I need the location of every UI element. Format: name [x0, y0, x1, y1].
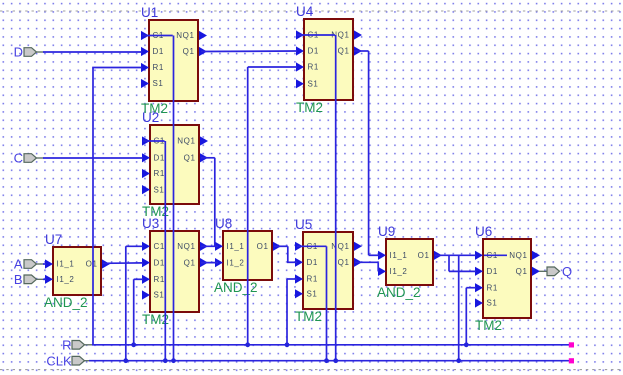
- flip-flop U1 (TM2) body: [141, 5, 207, 116]
- wire net R: horizontal into U3.R1: [134, 278, 143, 280]
- junction CLK rail x=173.5: [171, 358, 176, 363]
- svg-text:Q1: Q1: [516, 267, 528, 276]
- wire net C: port C to U2.D1: [43, 157, 143, 159]
- wire net B: port B to U7.I1_2: [43, 278, 46, 280]
- wire net R: vertical x=133.7 down to R rail: [133, 279, 135, 345]
- svg-text:R1: R1: [487, 283, 498, 292]
- pin S1 of U2: [142, 185, 150, 194]
- svg-text:D1: D1: [307, 258, 318, 267]
- wire net R: vertical x=287 down to R rail: [286, 279, 288, 345]
- pin Q1 of U5: [354, 258, 362, 267]
- pin S1 of U6: [475, 298, 483, 307]
- svg-text:B: B: [14, 272, 23, 287]
- svg-text:C1: C1: [154, 242, 165, 251]
- flip-flop U6 (TM2) body: [475, 224, 540, 333]
- svg-text:TM2: TM2: [295, 309, 322, 324]
- wire net U4.Q1 vertical down: [368, 51, 370, 255]
- svg-text:D1: D1: [154, 258, 165, 267]
- wire net CLK rail horizontal: [89, 360, 571, 362]
- pin R1 of U3: [142, 275, 150, 284]
- wire net U4.Q1 into U9.I1_1: [369, 254, 380, 256]
- svg-text:R1: R1: [307, 275, 318, 284]
- pin O1 of U7: [102, 259, 110, 268]
- junction CLK rail x=125.8: [123, 358, 128, 363]
- pin NQ1 of U1: [199, 31, 207, 40]
- svg-text:NQ1: NQ1: [176, 31, 194, 40]
- flip-flop U3 (TM2) body: [142, 216, 208, 327]
- pin I1_1 of U9: [378, 251, 386, 260]
- input port B: [14, 272, 44, 287]
- svg-text:TM2: TM2: [296, 100, 323, 115]
- pin S1 of U3: [142, 290, 150, 299]
- wire net U9.O1 into U6.D1: [449, 270, 476, 272]
- junction R rail x=466.3: [464, 342, 469, 347]
- pin Q1 of U2: [200, 153, 208, 162]
- pin NQ1 of U5: [354, 242, 362, 251]
- junction R rail x=133.7: [131, 342, 136, 347]
- wire net R: horizontal into U5.R1: [287, 278, 297, 280]
- pin Q1 of U6: [532, 267, 540, 276]
- pin C1 of U1: [141, 31, 149, 40]
- svg-text:C: C: [14, 151, 23, 166]
- pin R1 of U6: [475, 283, 483, 292]
- svg-text:D1: D1: [154, 154, 165, 163]
- flip-flop U5 (TM2) body: [295, 217, 362, 324]
- pin C1 of U5: [295, 242, 303, 251]
- input port A: [14, 257, 44, 272]
- dangling end marker on CLK rail: [569, 358, 574, 363]
- svg-text:D1: D1: [308, 47, 319, 56]
- svg-text:U6: U6: [475, 224, 492, 239]
- pin Q1 of U3: [200, 258, 208, 267]
- AND gate U7 (AND_2) body: [44, 232, 110, 310]
- wire net CLK: horizontal into U3.C1: [126, 245, 143, 247]
- pin C1 of U4: [296, 30, 304, 39]
- wire net CLK: stub from U4.C1 across label: [297, 34, 335, 36]
- wire net R: vertical x=93 down to R rail: [92, 68, 94, 345]
- pin Q1 of U4: [354, 46, 362, 55]
- svg-text:I1_1: I1_1: [227, 242, 245, 251]
- svg-text:Q1: Q1: [183, 47, 195, 56]
- svg-text:I1_1: I1_1: [57, 260, 75, 269]
- wire net U8.O1 into U5.D1: [287, 261, 297, 263]
- svg-text:AND_2: AND_2: [377, 285, 421, 300]
- flip-flop U2 (TM2) body: [142, 110, 208, 219]
- input port CLK: [46, 353, 92, 368]
- svg-text:Q1: Q1: [338, 258, 350, 267]
- pin D1 of U6: [475, 267, 483, 276]
- svg-text:S1: S1: [308, 80, 319, 89]
- pin C1 of U6: [475, 251, 483, 260]
- svg-text:S1: S1: [307, 290, 318, 299]
- junction CLK rail x=165.3: [163, 358, 168, 363]
- svg-text:R1: R1: [308, 63, 319, 72]
- svg-text:S1: S1: [154, 291, 165, 300]
- pin D1 of U3: [142, 258, 150, 267]
- pin R1 of U1: [141, 63, 149, 72]
- AND gate U9 (AND_2) body: [377, 224, 442, 300]
- svg-text:U9: U9: [378, 224, 395, 239]
- pin Q1 of U1: [199, 47, 207, 56]
- svg-text:U4: U4: [296, 4, 314, 19]
- pin D1 of U4: [296, 46, 304, 55]
- wire net U4.Q1 horizontal: [354, 50, 369, 52]
- svg-text:R1: R1: [153, 63, 164, 72]
- wire net R: horizontal into U4.R1: [248, 66, 297, 68]
- wire net R: vertical x=466.3 down to R rail: [465, 288, 467, 345]
- pin NQ1 of U4: [354, 30, 362, 39]
- svg-text:R: R: [62, 338, 71, 353]
- pin O1 of U9: [434, 251, 442, 260]
- pin NQ1 of U2: [200, 136, 208, 145]
- svg-text:U3: U3: [142, 216, 159, 231]
- svg-text:O1: O1: [257, 242, 269, 251]
- svg-text:Q1: Q1: [338, 47, 350, 56]
- pin R1 of U4: [296, 62, 304, 71]
- junction R rail x=287: [285, 342, 290, 347]
- svg-text:CLK: CLK: [46, 353, 72, 368]
- svg-text:D1: D1: [153, 47, 164, 56]
- pin R1 of U5: [295, 274, 303, 283]
- junction CLK rail x=458.7: [456, 358, 461, 363]
- wire net R rail horizontal: [92, 344, 571, 346]
- flip-flop U4 (TM2) body: [296, 4, 362, 115]
- svg-text:NQ1: NQ1: [177, 137, 195, 146]
- pin S1 of U5: [295, 289, 303, 298]
- wire net U8.O1 horizontal: [274, 245, 288, 247]
- svg-text:U1: U1: [141, 5, 158, 20]
- svg-text:O1: O1: [86, 260, 98, 269]
- wire net D: port D to U1.D1: [43, 51, 142, 53]
- output port Q: [539, 264, 572, 279]
- sheet border dashed line bottom: [0, 369, 623, 371]
- svg-text:U5: U5: [295, 217, 312, 232]
- dangling end marker on R rail: [569, 342, 574, 347]
- pin D1 of U1: [141, 47, 149, 56]
- pin R1 of U2: [142, 169, 150, 178]
- wire net U5.Q1 horizontal: [355, 261, 378, 263]
- wire net CLK: vertical x=125.8 to CLK rail: [125, 246, 127, 360]
- wire net R: vertical x=247.7 down to R rail: [247, 67, 249, 345]
- input port R: [62, 338, 92, 353]
- input port D: [14, 45, 44, 60]
- pin I1_1 of U7: [45, 259, 53, 268]
- svg-text:TM2: TM2: [475, 318, 502, 333]
- pin D1 of U5: [295, 258, 303, 267]
- wire net U3.NQ1 to U8.I1_1: [201, 245, 218, 247]
- svg-text:I1_1: I1_1: [390, 251, 408, 260]
- wire net CLK: vertical x=165.3 from U2.C1 to CLK rail: [164, 141, 166, 361]
- svg-text:Q1: Q1: [184, 154, 196, 163]
- wire net U2.Q1 vertical down to U8.I1_1: [214, 158, 216, 247]
- svg-text:S1: S1: [153, 79, 164, 88]
- pin S1 of U1: [141, 79, 149, 88]
- wire net CLK: vertical x=173.5 from U1.C1 to CLK rail: [173, 36, 175, 361]
- svg-text:U8: U8: [215, 216, 232, 231]
- AND gate U8 (AND_2) body: [214, 216, 281, 295]
- pin D1 of U2: [142, 153, 150, 162]
- wire net U3.Q1 to U8.I1_2: [201, 262, 218, 264]
- wire net CLK: vertical x=458.7 from U6.C1 to CLK rail: [458, 255, 460, 360]
- svg-text:AND_2: AND_2: [44, 295, 88, 310]
- svg-text:S1: S1: [154, 185, 165, 194]
- wire net CLK: vertical x=335.7 from U4.C1 to CLK rail: [335, 35, 337, 361]
- svg-text:R1: R1: [154, 275, 165, 284]
- svg-text:A: A: [14, 257, 23, 272]
- pin NQ1 of U3: [200, 242, 208, 251]
- pin I1_1 of U8: [215, 242, 223, 251]
- wire net U1.Q1 to U4.D1: [201, 50, 297, 53]
- svg-text:Q: Q: [562, 264, 572, 279]
- wire net CLK: stub from U1.C1 across label: [142, 35, 173, 37]
- junction CLK rail x=326.5: [324, 358, 329, 363]
- input port C: [14, 151, 44, 166]
- wire net U7.O1 to U3.D1: [103, 262, 143, 264]
- svg-text:NQ1: NQ1: [509, 251, 527, 260]
- svg-text:I1_2: I1_2: [227, 258, 245, 267]
- pin S1 of U4: [296, 79, 304, 88]
- pin I1_2 of U8: [215, 258, 223, 267]
- svg-text:S1: S1: [487, 299, 498, 308]
- pin C1 of U3: [142, 242, 150, 251]
- pin I1_2 of U7: [45, 275, 53, 284]
- wire net U8.O1 vertical elbow: [287, 246, 289, 262]
- wire net A: port A to U7.I1_1: [43, 263, 46, 265]
- svg-text:I1_2: I1_2: [390, 267, 408, 276]
- svg-text:R1: R1: [154, 169, 165, 178]
- svg-text:O1: O1: [418, 251, 430, 260]
- svg-text:I1_2: I1_2: [57, 275, 75, 284]
- svg-text:AND_2: AND_2: [214, 280, 258, 295]
- sheet border dashed line top: [0, 10, 623, 12]
- pin O1 of U8: [273, 242, 281, 251]
- junction CLK rail x=335.7: [333, 358, 338, 363]
- wire net R: horizontal into U6.R1: [466, 287, 476, 289]
- wire net CLK: stub inside U6 across C1 label: [484, 254, 507, 256]
- wire net CLK: stub from U5.C1 across label: [297, 245, 327, 247]
- svg-text:U2: U2: [142, 110, 159, 125]
- svg-text:U7: U7: [45, 232, 62, 247]
- svg-text:NQ1: NQ1: [177, 242, 195, 251]
- pin C1 of U2: [142, 136, 150, 145]
- svg-text:Q1: Q1: [184, 258, 196, 267]
- wire net U5.Q1 vertical elbow to U9.I1_2: [377, 262, 379, 271]
- wire net R: horizontal into U1.R1: [92, 67, 142, 69]
- svg-text:D1: D1: [487, 267, 498, 276]
- junction R rail x=247.7: [245, 342, 250, 347]
- wire net U9.O1 horizontal to U6.C1 row: [435, 254, 476, 256]
- wire net CLK: stub from U2.C1 across label: [143, 140, 165, 142]
- pin I1_2 of U9: [378, 267, 386, 276]
- svg-text:D: D: [14, 45, 23, 60]
- wire net CLK: vertical x=326.5 from U5.C1 to CLK rail: [326, 246, 328, 360]
- svg-text:NQ1: NQ1: [331, 242, 349, 251]
- wire net U9.O1 vertical elbow: [448, 255, 450, 271]
- pin NQ1 of U6: [532, 251, 540, 260]
- wire net U2.Q1 horizontal: [201, 157, 215, 159]
